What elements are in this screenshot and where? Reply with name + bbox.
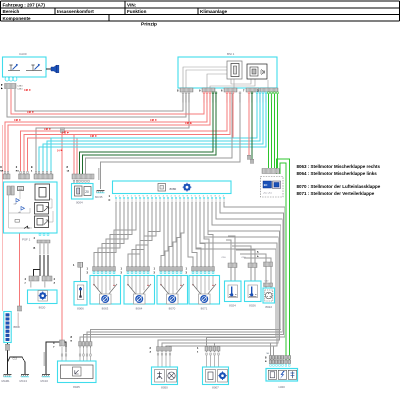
svg-text:BSI 1: BSI 1	[227, 52, 235, 56]
svg-text:8024: 8024	[229, 304, 236, 308]
svg-text:1: 1	[154, 267, 156, 271]
svg-text:E: E	[31, 165, 33, 169]
wire black 8045 to ground MC16	[46, 342, 66, 374]
ground MA01	[3, 375, 11, 377]
svg-text:C4B4: C4B4	[17, 89, 23, 91]
svg-text:1: 1	[87, 267, 89, 271]
svg-text:MC13: MC13	[20, 379, 28, 383]
wire red splice to 8045	[61, 132, 63, 340]
svg-text:8: 8	[71, 335, 73, 339]
wire green BSI1 to Stellmotor connector pin 4	[277, 92, 279, 168]
wire gray BSI1 to PSF1	[36, 92, 189, 174]
svg-text:8020: 8020	[39, 306, 46, 310]
component 8022 sensor box	[257, 250, 275, 309]
svg-text:3: 3	[87, 271, 89, 275]
svg-text:NR: NR	[0, 170, 4, 172]
svg-text:Komponente: Komponente	[3, 16, 32, 21]
svg-text:-2Cv -2Cv: -2Cv -2Cv	[263, 193, 272, 195]
svg-text:8064 : Stellmotor Mischerklapp: 8064 : Stellmotor Mischerklappe links	[297, 171, 378, 176]
connector BB00 strip	[4, 312, 21, 343]
label wire 14 i	[57, 149, 63, 152]
8050 connector pins	[150, 346, 172, 367]
wire cyan CAN b	[47, 92, 260, 174]
svg-text:2: 2	[16, 165, 18, 169]
wire black to ground MC13	[8, 357, 26, 374]
wire gray 8080 to 8045 d	[91, 202, 281, 348]
wire green BSI1 to Stellmotor connector pin 1	[268, 92, 270, 168]
svg-text:C4B3: C4B3	[17, 86, 23, 88]
wire green BSI1 to 0004 b	[83, 92, 217, 174]
svg-text:2: 2	[150, 346, 152, 350]
svg-text:3: 3	[121, 271, 123, 275]
svg-text:8063: 8063	[102, 307, 109, 311]
wire red PSF1 to BSI1 a	[5, 92, 207, 174]
svg-text:8050: 8050	[161, 386, 168, 390]
BSI1 control symbol	[247, 64, 267, 79]
wire black jog 8020	[34, 270, 41, 277]
component CA00 box	[3, 52, 47, 77]
svg-text:5: 5	[257, 250, 259, 254]
connector 0004 pins	[67, 165, 95, 182]
wire green connector to 1320 b	[280, 163, 286, 362]
wire gray 8080 to 8050 a	[158, 202, 280, 352]
wire green BSI1 stub g4	[251, 92, 253, 159]
svg-text:6: 6	[221, 89, 223, 93]
8080 pin numbers	[109, 194, 225, 203]
svg-text:8007: 8007	[212, 386, 219, 390]
svg-text:14B: 14B	[27, 111, 32, 114]
CA00 connector pins	[1, 77, 23, 91]
svg-text:Klimaanlage: Klimaanlage	[200, 9, 228, 14]
label wire 14B b	[14, 119, 21, 122]
svg-text:1: 1	[197, 346, 199, 350]
wire gray ground MC35	[101, 92, 241, 189]
label wire 14B f	[150, 119, 157, 122]
component 8007 box	[203, 367, 229, 390]
svg-text:A: A	[257, 255, 259, 258]
1320 connector pins	[265, 353, 291, 366]
svg-text:4: 4	[25, 277, 27, 281]
wire gray CA00 pin3 to BSI1	[15, 89, 183, 111]
wire red BSI1 stub g4	[248, 92, 250, 155]
svg-text:8: 8	[265, 356, 267, 360]
wire gray 8080 to 8045 c	[87, 202, 282, 348]
svg-text:RG: RG	[16, 170, 20, 172]
ground MC35	[95, 191, 105, 200]
svg-text:14B: 14B	[14, 119, 19, 122]
svg-text:14B: 14B	[24, 89, 29, 92]
wire gray 8080 to 8007 a	[196, 202, 276, 352]
wire black PSF1 to 8020 c	[47, 255, 49, 276]
svg-text:14B: 14B	[150, 119, 155, 122]
wire gray 0004 to BSI1	[86, 92, 233, 174]
label wire 14B a	[27, 111, 34, 114]
wire red connector 0004 feed a	[73, 135, 75, 175]
svg-text:8071: 8071	[201, 307, 208, 311]
svg-text:A1: A1	[19, 211, 22, 214]
PSF1 relay 2	[35, 203, 49, 215]
svg-text:14B: 14B	[90, 135, 95, 138]
component BSI1 box	[178, 52, 277, 88]
svg-text:9: 9	[199, 89, 201, 93]
connector Stellmotor dashed box	[261, 169, 284, 198]
label wire 14B g	[185, 122, 192, 125]
8045 connector pins	[53, 335, 92, 361]
PSF1 relay 1	[35, 184, 50, 200]
wire gray 8080 to 8050 b	[162, 202, 278, 352]
svg-text:C13: C13	[13, 358, 18, 361]
component 8080 box	[113, 181, 232, 194]
wire red PSF1 to BSI1 b	[8, 92, 210, 174]
svg-text:MC16: MC16	[41, 379, 49, 383]
wire green connector to 1320 a	[277, 159, 290, 362]
wire cyan CAN c	[43, 92, 263, 174]
PSF1 relay 3	[35, 216, 49, 228]
component 8020 box	[28, 290, 58, 310]
CA00 battery plug icon	[46, 65, 59, 73]
svg-text:8: 8	[67, 165, 69, 169]
wire gray 8007 to 1320 b	[219, 346, 274, 362]
svg-text:8: 8	[177, 89, 179, 93]
wire cyan CAN d	[39, 92, 266, 174]
svg-text:3: 3	[154, 271, 156, 275]
component 8024 sensor box	[222, 257, 242, 308]
BSI1 internal wiring	[183, 67, 268, 88]
svg-text:1: 1	[121, 267, 123, 271]
svg-text:A: A	[54, 282, 56, 285]
svg-text:2: 2	[25, 283, 27, 285]
label wire 14B e	[90, 135, 97, 138]
wire gray 8050 riser d	[169, 348, 171, 352]
legend Stellmotor lines	[297, 164, 381, 196]
8020 connector pins	[25, 276, 56, 287]
svg-text:C10: C10	[222, 257, 227, 259]
component 8071 Stellmotor box	[186, 267, 220, 311]
svg-text:7: 7	[243, 89, 245, 93]
label wire 14B h	[24, 89, 31, 92]
svg-text:B: B	[265, 361, 267, 363]
svg-text:Insassenkomfort: Insassenkomfort	[57, 9, 94, 14]
svg-text:B: B	[34, 247, 36, 250]
CA00 internal battery symbol 2	[26, 64, 42, 71]
svg-text:VIN:: VIN:	[127, 2, 137, 7]
svg-text:0004: 0004	[76, 201, 83, 205]
wire green BSI1 to Stellmotor connector pin 2	[271, 92, 273, 168]
wire green BSI1 to Stellmotor connector pin 3	[274, 92, 276, 168]
svg-text:EC: EC	[264, 183, 268, 187]
svg-text:PSF 1: PSF 1	[22, 238, 31, 242]
component 0004 box	[72, 184, 94, 205]
wire black PSF1 to 8020 a	[39, 255, 41, 276]
svg-text:8022: 8022	[265, 305, 272, 309]
wire red PSF1 to BSI1 d	[24, 92, 230, 174]
CA00 internal battery symbol 1	[8, 64, 20, 71]
svg-text:4JP: 4JP	[14, 204, 18, 206]
svg-text:1: 1	[186, 267, 188, 271]
component 8070 Stellmotor box	[154, 267, 188, 311]
svg-text:8045: 8045	[73, 385, 80, 389]
svg-text:1A: 1A	[67, 169, 70, 172]
wire gray 8080 to 8050 c	[166, 202, 277, 352]
label wire 14B d	[62, 132, 69, 135]
svg-text:A: A	[150, 351, 152, 354]
wire red PSF1 to BSI1 c	[21, 92, 228, 174]
wire cyan CAN a	[51, 92, 257, 174]
svg-text:14: 14	[57, 149, 60, 152]
svg-text:8063 : Stellmotor Mischerklapp: 8063 : Stellmotor Mischerklappe rechts	[297, 164, 381, 169]
PSF1 fuses	[7, 186, 24, 195]
wire black PSF1 to 8020 b	[43, 255, 45, 276]
wire gray 8006 riser	[80, 262, 82, 282]
svg-text:4: 4	[31, 169, 33, 172]
wire gray CA00 pin1 to BSI1	[7, 89, 186, 117]
svg-text:1: 1	[109, 194, 111, 198]
svg-text:14B: 14B	[44, 128, 49, 131]
wire gray 8080 to 8045 a	[80, 202, 285, 348]
svg-text:B: B	[71, 341, 73, 343]
component 1320 box	[266, 369, 298, 390]
component 8006 box	[73, 263, 87, 311]
svg-text:Fahrzeug : 207 (A7): Fahrzeug : 207 (A7)	[3, 2, 46, 7]
svg-text:8026: 8026	[249, 304, 256, 308]
component PSF1 box	[4, 182, 58, 242]
svg-text:20: 20	[85, 190, 89, 194]
wire red CA00 pin2 to BSI1	[11, 89, 204, 114]
svg-text:C10: C10	[265, 281, 270, 283]
wire red connector 0004 feed b	[76, 138, 78, 174]
svg-text:V: V	[53, 347, 55, 349]
svg-text:Prinzip: Prinzip	[141, 22, 157, 28]
component 8050 box	[152, 367, 178, 390]
wire red PSF1 to BB00 strip	[19, 233, 21, 306]
svg-text:MC35: MC35	[95, 195, 103, 199]
svg-text:3: 3	[186, 271, 188, 275]
ground MC13	[21, 375, 29, 377]
wire gray 8080 to 8045 b	[84, 202, 284, 348]
component 8063 Stellmotor box	[87, 267, 121, 311]
svg-text:4: 4	[34, 237, 36, 240]
svg-text:8080: 8080	[170, 187, 177, 191]
wire gray 8007 to 1320 a	[215, 343, 271, 362]
component 8026 sensor box	[242, 257, 262, 308]
PSF1 internal wires	[9, 191, 53, 229]
svg-text:BB00: BB00	[14, 325, 21, 329]
wire gray 8007 riser b	[210, 346, 212, 352]
PSF1 transistor symbols	[14, 199, 30, 229]
svg-text:CA00: CA00	[19, 52, 27, 56]
svg-text:4: 4	[54, 277, 56, 281]
svg-text:C: C	[109, 198, 111, 202]
PSF1 top connector pins	[0, 165, 53, 179]
svg-text:8006: 8006	[77, 307, 84, 311]
BB10 splice	[17, 306, 21, 326]
wire green BSI1 to 0004 a	[80, 92, 214, 174]
component 8064 Stellmotor box	[121, 267, 155, 311]
svg-text:Bereich: Bereich	[3, 9, 20, 14]
PSF1 bottom pins	[34, 234, 51, 255]
svg-text:Funktion: Funktion	[127, 9, 147, 14]
svg-text:14B: 14B	[185, 122, 190, 125]
svg-text:8070: 8070	[169, 307, 176, 311]
svg-text:MAM1: MAM1	[2, 379, 11, 383]
svg-text:1320: 1320	[278, 385, 285, 389]
ground MC16	[42, 375, 50, 377]
svg-text:8064: 8064	[136, 307, 143, 311]
label wire 14B c	[44, 128, 51, 131]
svg-text:6: 6	[197, 352, 199, 354]
wire red PSF1 to BSI1 e	[28, 92, 234, 174]
8007 connector pins	[197, 346, 220, 367]
wire gray 8026 risers	[232, 246, 251, 281]
svg-text:1: 1	[73, 263, 75, 267]
header table	[1, 1, 400, 21]
component 8045 box	[58, 361, 97, 389]
wire black BB00 to ground MA01	[7, 342, 9, 374]
BSI1 connector pin groups	[177, 88, 278, 94]
svg-text:M4: M4	[267, 353, 271, 355]
wire fan 8080 to actuators	[94, 202, 213, 271]
svg-text:8071 : Stellmotor der Verteile: 8071 : Stellmotor der Verteilerklappe	[297, 191, 375, 196]
wire red left edge to bottom	[1, 125, 3, 311]
svg-text:14B: 14B	[62, 132, 67, 135]
svg-text:8070 : Stellmotor der Lufteinl: 8070 : Stellmotor der Lufteinlassklappe	[297, 184, 381, 189]
BSI1 pin wire-name stacks	[182, 95, 278, 102]
BSI1 relay symbol	[227, 61, 242, 79]
wire gray 8022 risers	[240, 254, 266, 288]
wire gray 8024 risers	[226, 240, 231, 281]
